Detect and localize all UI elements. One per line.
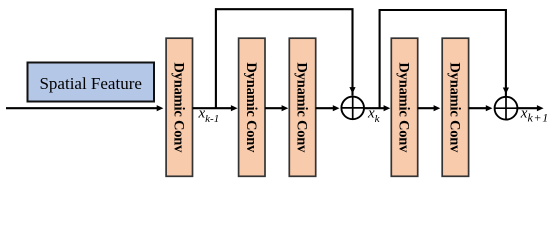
svg-text:Dynamic Conv: Dynamic Conv [243,62,259,153]
svg-text:Dynamic Conv: Dynamic Conv [294,62,310,153]
block Dynamic Conv 3 [289,38,315,176]
wire Dynamic Conv 1 to Dynamic Conv 2, node x_k-1 [193,105,238,111]
wire Dynamic Conv 5 to adder 2 [469,105,493,111]
skip connection 2: from node x_k over to adder 2 [380,10,509,108]
wire Dynamic Conv 2 to Dynamic Conv 3 [265,105,288,111]
svg-text:Spatial Feature: Spatial Feature [39,74,141,93]
wire Dynamic Conv 4 to Dynamic Conv 5 [418,105,441,111]
wire adder 2 to output, node x_k+1 [518,105,544,111]
skip connection 1: from node x_k-1 over to adder 1 [216,9,356,108]
block Dynamic Conv 4 [391,38,417,176]
wire adder 1 to Dynamic Conv 4, node x_k [364,105,390,111]
svg-text:Dynamic Conv: Dynamic Conv [446,62,462,153]
svg-text:Dynamic Conv: Dynamic Conv [396,62,412,153]
adder 1 (circle plus) [341,97,364,120]
block Spatial Feature [28,63,155,102]
wire input to Dynamic Conv 1 [6,105,163,111]
adder 2 (circle plus) [495,97,518,120]
block Dynamic Conv 2 [239,38,265,176]
wire Dynamic Conv 3 to adder 1 [316,105,340,111]
block Dynamic Conv 5 [442,38,468,176]
svg-text:Dynamic Conv: Dynamic Conv [170,62,186,153]
block Dynamic Conv 1 [166,38,192,176]
